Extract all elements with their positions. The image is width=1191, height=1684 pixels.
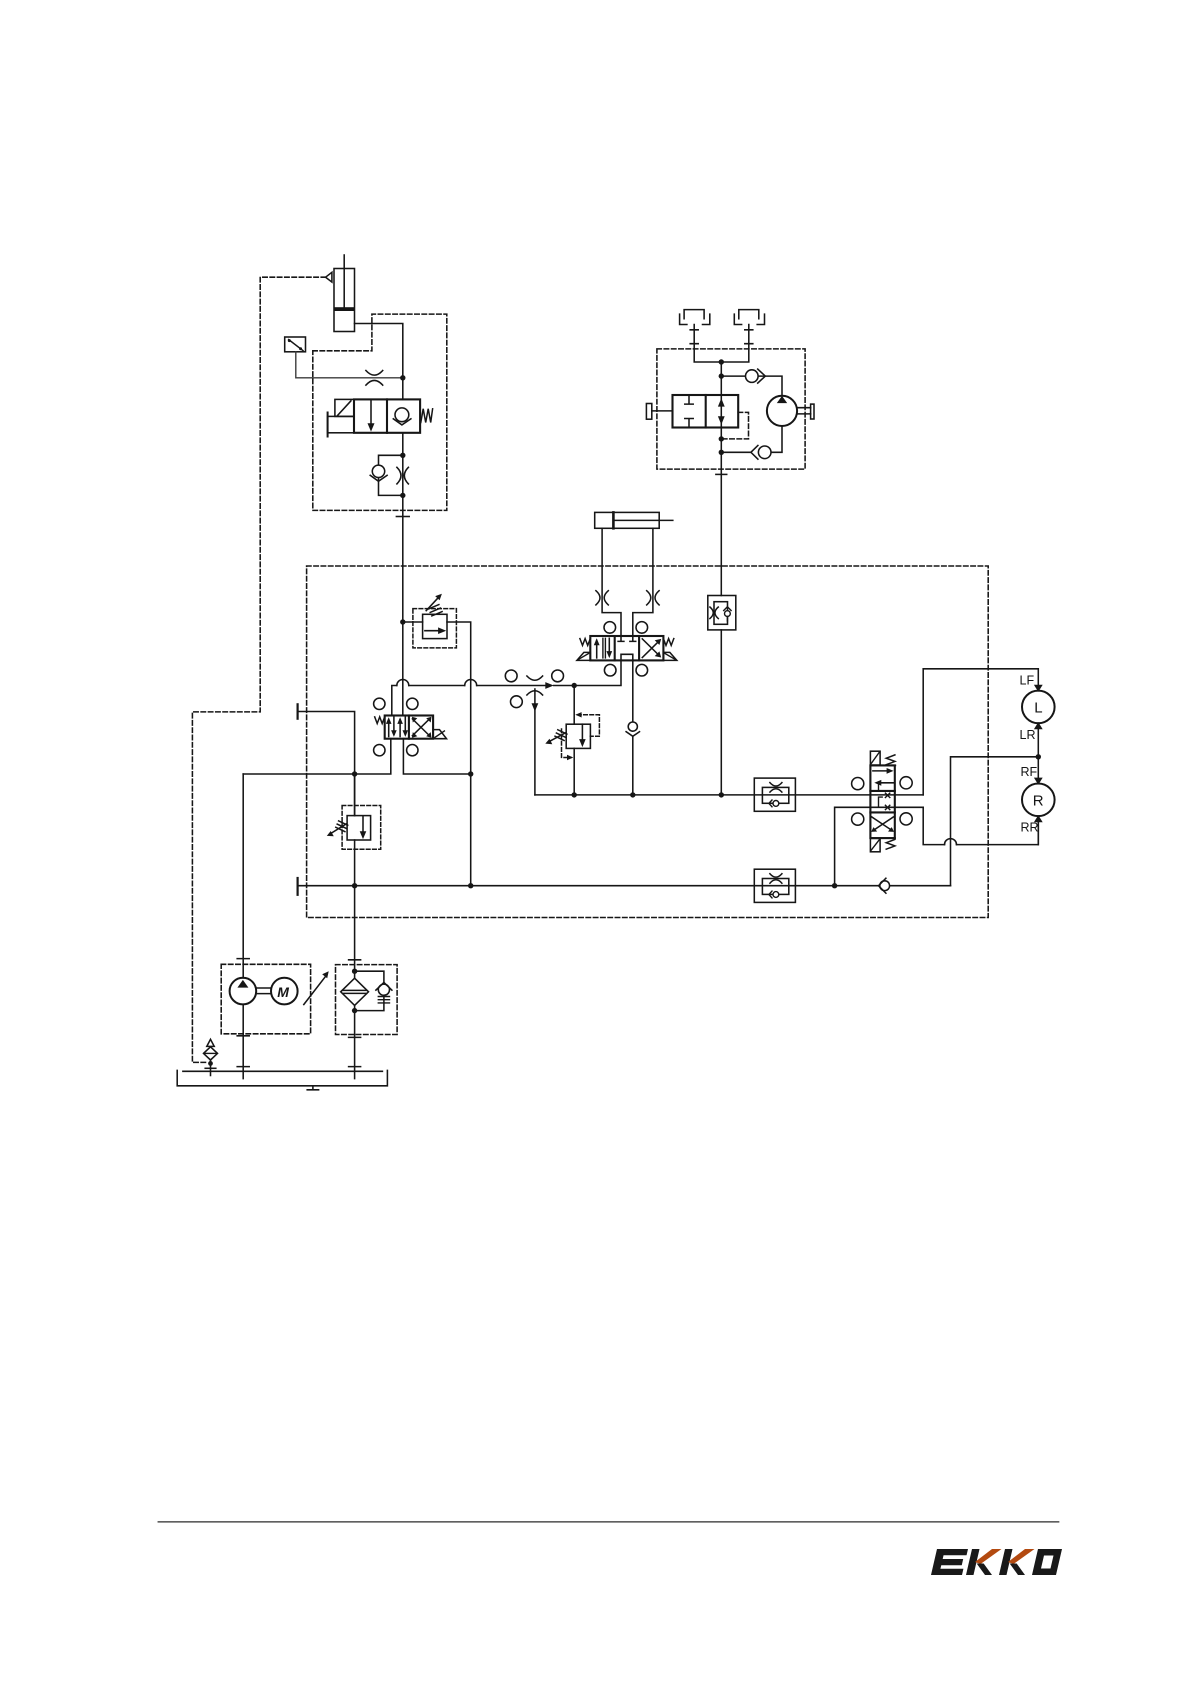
- pump suction riser: [242, 774, 244, 1079]
- wire V5 right to motor L feed: [923, 669, 1038, 795]
- flow control FC2 orifice: [770, 874, 782, 884]
- node check branch bottom: [719, 450, 724, 455]
- svg-text:LR: LR: [1020, 728, 1036, 742]
- pilot arrowhead at cylinder: [326, 272, 332, 282]
- riser through group: [720, 362, 722, 395]
- wire hop over riser: [397, 680, 409, 686]
- check valve CVa wire: [721, 376, 782, 396]
- relief valve RV3 output: [354, 840, 356, 886]
- wire pump pressure bus: [243, 739, 391, 774]
- check valve CVb wire: [721, 426, 782, 452]
- svg-text:RR: RR: [1021, 821, 1039, 835]
- flow arrow into L bottom: [1034, 722, 1043, 729]
- flow control FC0 inner: [714, 602, 728, 625]
- EKKO logo: [931, 1549, 1062, 1575]
- relief valve RV3 spring: [336, 821, 348, 832]
- valve V3 port circles: [374, 698, 385, 709]
- bypass check valve CV1: [372, 465, 384, 477]
- valve V5 bottom plate: [870, 838, 880, 851]
- cylinder C2 left port line: [602, 528, 621, 636]
- valve V4 flow arrows: [720, 395, 722, 428]
- cylinder C2 rod: [615, 519, 673, 521]
- node stems junction: [719, 359, 724, 364]
- line V2 to check CV2: [632, 660, 634, 795]
- svg-text:LF: LF: [1020, 674, 1035, 688]
- valve V2 left spring: [580, 639, 590, 646]
- flow control FC1 check: [773, 801, 779, 807]
- limit switch S1 box: [285, 337, 306, 352]
- valve V5 top plate: [870, 751, 880, 765]
- limit switch S1 contacts: [288, 339, 291, 342]
- dashed enclosure filter unit: [336, 965, 398, 1035]
- flow control FC2 check: [773, 892, 779, 898]
- pump P1: [230, 978, 257, 1005]
- brake bracket left: [684, 310, 704, 319]
- relief valve RV2 body: [566, 724, 590, 748]
- port circle: [505, 670, 517, 682]
- breather B1: [204, 1047, 218, 1060]
- valve V5 top square arrows: [873, 770, 891, 772]
- dashed enclosure brake release group: [657, 349, 805, 469]
- node detent: [719, 436, 724, 441]
- node metering junction: [572, 683, 577, 688]
- tank container: [177, 1070, 387, 1085]
- valve V2 center blocked stubs: [618, 636, 636, 641]
- pump P2 shaft: [797, 408, 811, 414]
- wire hop over RV1 output: [465, 680, 477, 686]
- valve V4 detent dashed: [724, 412, 749, 439]
- node: [352, 883, 357, 888]
- valve V1 center arrow: [370, 401, 372, 424]
- brake right stem: [721, 325, 749, 363]
- wire metering line: [392, 660, 621, 715]
- port circle: [511, 696, 523, 708]
- valve V4 lever: [652, 410, 673, 412]
- valve V2 center tank tab: [621, 654, 633, 660]
- flow control FC1 orifice: [770, 783, 782, 793]
- wire secondary bus: [535, 794, 923, 796]
- pipe tick: [237, 959, 249, 1067]
- valve V5 bottom spring: [886, 839, 895, 849]
- node bypass bottom: [400, 493, 405, 498]
- pump P2: [767, 396, 797, 426]
- footer rule: [158, 1521, 1058, 1523]
- flow control FC0 check: [725, 611, 731, 617]
- filter return riser: [354, 886, 356, 1079]
- motor R: [1022, 784, 1055, 817]
- port circle: [552, 670, 564, 682]
- dashed enclosure power unit: [221, 964, 310, 1034]
- filter F1 diamond: [341, 978, 369, 1005]
- flow control box FC2 outer: [754, 869, 795, 902]
- flow control box FC1 outer: [754, 778, 795, 811]
- motor M1: [271, 978, 298, 1005]
- node breather drain: [208, 1061, 213, 1066]
- relief valve RV1 input wire: [403, 621, 423, 623]
- cylinder CY1 piston: [334, 307, 355, 311]
- relief valve RV1 body: [423, 614, 447, 638]
- wire cylinder port to riser: [355, 324, 403, 378]
- node riser-switch junction: [400, 375, 405, 380]
- riser FC0 to bus: [720, 630, 722, 795]
- motor M1 variable arrow: [304, 976, 326, 1005]
- node drain corner: [832, 883, 837, 888]
- cylinder C2 piston: [612, 512, 615, 528]
- wire T-bar to return riser: [298, 712, 355, 816]
- tank surface line: [183, 1070, 383, 1072]
- valve V1 check: [395, 408, 409, 422]
- wire tank return bus: [298, 885, 951, 887]
- bypass check branch: [379, 455, 403, 495]
- valve V2 body: [590, 636, 663, 660]
- flow arrow into L top: [1034, 685, 1043, 692]
- filter bypass relief: [355, 971, 384, 1010]
- wire motor mid branch: [951, 757, 1039, 886]
- flow control FC0 outer: [708, 596, 736, 630]
- relief valve RV1 output wire: [447, 622, 471, 886]
- riser to valve V3: [402, 622, 404, 716]
- relief valve RV1 arrow: [425, 630, 440, 632]
- bleed line with down arrow: [534, 689, 536, 795]
- valve V3 left spring: [375, 717, 385, 724]
- restrictor on left line: [596, 591, 608, 605]
- dashed enclosure main manifold: [307, 566, 989, 918]
- valve V2 right spring: [663, 639, 673, 646]
- node: [468, 771, 473, 776]
- cylinder C2 body: [595, 512, 660, 528]
- riser below V4: [720, 428, 722, 596]
- wire drain to V5 lower left: [835, 807, 924, 885]
- valve V3 body: [385, 716, 433, 739]
- cylinder CY1 rod: [343, 255, 345, 308]
- motor L: [1022, 691, 1055, 724]
- relief valve RV2 output: [573, 748, 575, 795]
- pipe joint tick: [716, 473, 727, 475]
- svg-text:R: R: [1033, 793, 1044, 810]
- dashed pilot line left loop: [192, 277, 325, 1062]
- check valve CVb: [758, 446, 771, 459]
- valve V5 body: [870, 765, 894, 838]
- node check branch top: [719, 373, 724, 378]
- T-bar terminal lower left: [297, 878, 299, 895]
- valve V2 left end plate: [577, 652, 590, 660]
- valve V5 middle blocked: [879, 797, 883, 806]
- valve V2 port circles: [604, 622, 616, 634]
- valve V1 solenoid: [335, 399, 354, 416]
- valve V1 override box: [328, 416, 354, 432]
- valve V2 right end plate: [663, 652, 676, 660]
- cylinder CY1 body: [334, 269, 355, 332]
- relief valve RV1 dashed pilot: [413, 609, 457, 648]
- valve V5 top spring: [886, 755, 895, 765]
- relief valve RV2 adjust arrow: [550, 733, 566, 742]
- check valve CVa: [746, 370, 759, 383]
- pipe tick: [349, 960, 361, 1067]
- valve V2 left square arrows: [596, 641, 598, 658]
- wire V5 right lower to motor R return: [923, 807, 1038, 844]
- relief valve RV2 dashed pilot: [562, 715, 600, 758]
- riser to manifold: [402, 455, 404, 622]
- relief valve RV3 input: [354, 774, 356, 816]
- node bypass top: [400, 453, 405, 458]
- relief valve RV1 spring: [429, 605, 443, 616]
- valve V3 left square arrows: [388, 720, 390, 737]
- tank ground mark: [307, 1086, 318, 1090]
- flow arrow into R bottom: [1034, 815, 1043, 822]
- brake left stem: [694, 325, 721, 363]
- flow control FC1 inner: [762, 787, 788, 803]
- pipe joint tick: [396, 516, 409, 518]
- node: [468, 883, 473, 888]
- shaft: [256, 988, 271, 994]
- restrictor on right line: [647, 591, 659, 605]
- relief valve RV2 input: [573, 686, 575, 725]
- node: [630, 792, 635, 797]
- valve V2 right square cross arrows: [642, 639, 659, 658]
- venturi symbol: [527, 676, 543, 695]
- relief valve RV3 dashed pilot: [342, 806, 381, 850]
- cylinder C2 right port line: [633, 528, 653, 636]
- brake bracket right: [739, 310, 759, 319]
- relief valve RV3 adjust arrow: [331, 824, 346, 834]
- bypass orifice: [397, 467, 409, 484]
- relief valve RV3 arrow: [362, 817, 364, 832]
- svg-text:RF: RF: [1021, 765, 1038, 779]
- valve V3 end plate: [433, 730, 446, 739]
- relief valve RV3 body: [347, 816, 371, 840]
- flow arrow on metering wire: [545, 682, 554, 689]
- valve V4 body: [673, 395, 739, 428]
- valve V4 blocked ports: [685, 395, 693, 428]
- valve V5 port circles: [852, 778, 864, 790]
- relief valve RV2 arrow: [581, 724, 583, 739]
- node filter bypass top: [352, 969, 357, 974]
- valve V5 bottom square cross arrows: [872, 817, 893, 830]
- node relief RV1 input: [400, 619, 405, 624]
- valve V3 right square cross arrows: [412, 719, 429, 736]
- node filter bypass bottom: [352, 1008, 357, 1013]
- orifice on switch wire: [366, 371, 383, 386]
- inline check valve CVc: [880, 881, 890, 891]
- node: [719, 792, 724, 797]
- svg-text:M: M: [277, 984, 289, 1000]
- wire switch to riser: [296, 352, 403, 378]
- valve V1 body: [354, 399, 420, 432]
- flow control FC0 orifice: [710, 607, 718, 619]
- wire hop at crossing: [945, 839, 957, 845]
- valve V1 spring: [421, 409, 433, 423]
- T-bar terminal upper left: [297, 704, 299, 718]
- flow control FC2 inner: [762, 879, 788, 895]
- node: [572, 792, 577, 797]
- node motor junction: [1036, 754, 1041, 759]
- motor L column: [1037, 723, 1039, 844]
- check valve CV2: [628, 722, 637, 731]
- relief valve RV2 spring: [555, 730, 567, 741]
- node: [352, 771, 357, 776]
- riser through V1: [402, 378, 404, 456]
- relief valve RV1 adjust arrow: [426, 597, 439, 611]
- wire valve V3 T-port to RV1 drop: [403, 739, 470, 774]
- flow arrow into R top: [1034, 778, 1043, 785]
- dashed enclosure upper valve group: [313, 314, 447, 510]
- svg-text:L: L: [1034, 700, 1042, 717]
